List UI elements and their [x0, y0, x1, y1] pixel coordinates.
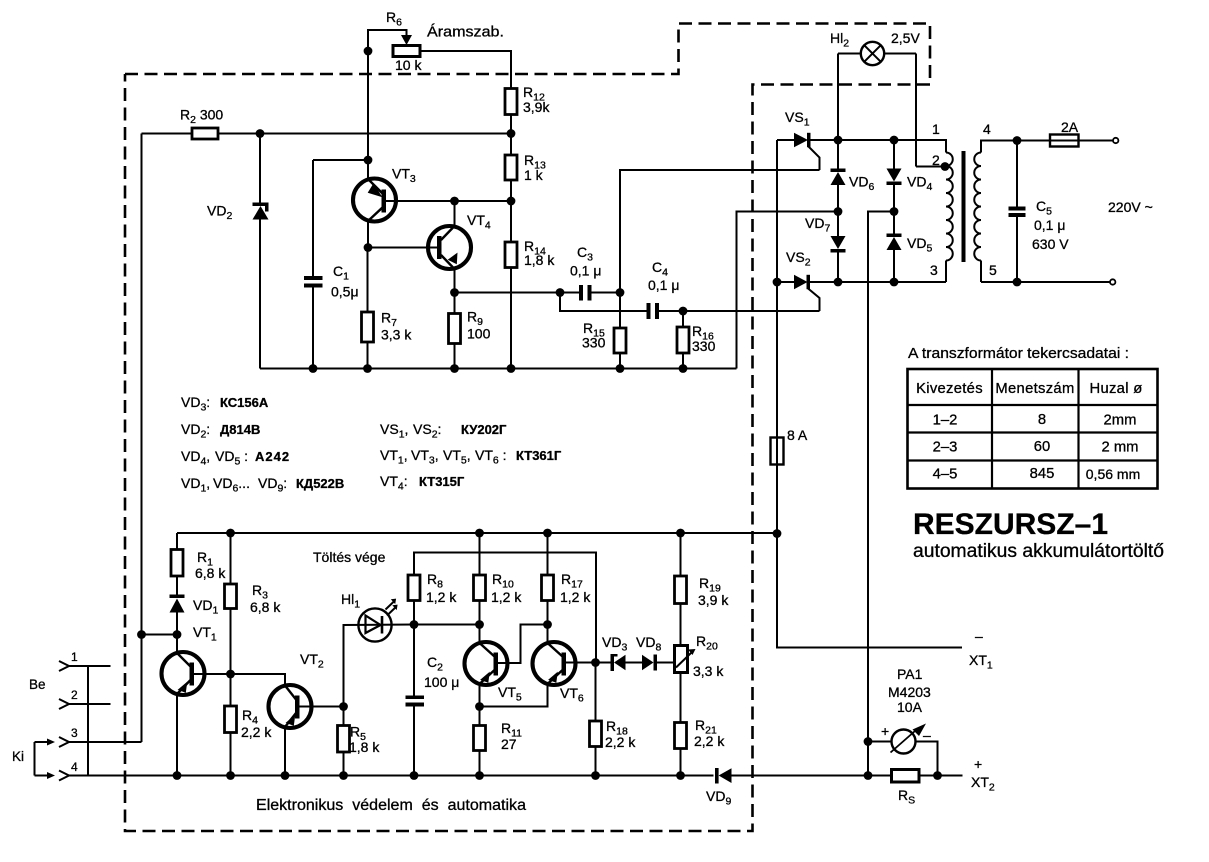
svg-text:+: +	[881, 723, 889, 739]
label Be	[29, 677, 46, 692]
label C3 0,1u	[570, 244, 601, 279]
svg-text:–: –	[975, 628, 983, 644]
node VT4 emitter	[450, 288, 459, 297]
label Ki	[12, 749, 24, 764]
svg-text:Töltés vége: Töltés vége	[313, 549, 386, 565]
label R5 1,8k	[349, 724, 380, 756]
node R18 rail	[591, 771, 600, 780]
node R3 top	[226, 529, 235, 538]
label VS1	[785, 109, 810, 129]
label terminal 4	[983, 121, 991, 137]
terminal link bar	[87, 666, 89, 776]
capacitor C5	[1009, 141, 1026, 283]
label R3 6,8k	[250, 582, 281, 615]
svg-text:0,1 μ: 0,1 μ	[570, 263, 601, 279]
node R10 top	[475, 529, 484, 538]
node R9-rail	[450, 364, 459, 373]
input terminal 2	[59, 688, 111, 709]
label R10 1,2k	[491, 571, 522, 605]
svg-text:27: 27	[501, 736, 517, 752]
svg-text:2A: 2A	[1061, 119, 1079, 135]
svg-text:10 k: 10 k	[395, 57, 422, 73]
transformer winding table	[908, 369, 1158, 489]
wire VT4 collector up	[454, 201, 456, 227]
svg-text:220V ~: 220V ~	[1108, 199, 1153, 215]
lamp HL2	[838, 42, 945, 167]
svg-text:А242: А242	[255, 449, 290, 464]
label R2 300	[180, 107, 223, 127]
label XT1 minus	[975, 628, 983, 644]
input terminal 1	[59, 650, 111, 671]
svg-text:630 V: 630 V	[1032, 236, 1069, 252]
node C3 left	[556, 288, 565, 297]
label R11 27	[501, 720, 522, 752]
svg-text:845: 845	[1030, 466, 1055, 482]
diode VD5	[887, 212, 902, 283]
transistor VT3	[353, 179, 455, 222]
thyristor VS2	[777, 275, 838, 311]
label VD4	[907, 174, 932, 194]
resistor R3	[225, 533, 237, 674]
svg-text:0,1 μ: 0,1 μ	[1034, 217, 1065, 233]
node C3-R15	[616, 288, 625, 297]
node PA1 plus	[864, 737, 873, 746]
label VD1	[193, 597, 218, 617]
wire R8 top link	[414, 553, 596, 663]
svg-text:1–2: 1–2	[933, 413, 958, 429]
wire VT4 emitter to C3	[455, 292, 580, 294]
label R8 1,2k	[426, 571, 457, 605]
svg-text:10A: 10A	[897, 699, 923, 715]
capacitor C1	[304, 160, 368, 369]
label XT1	[969, 652, 993, 672]
wire C3 node down to C4 line	[560, 293, 647, 312]
svg-text:4: 4	[71, 760, 78, 774]
svg-text:0,56 mm: 0,56 mm	[1086, 466, 1140, 482]
node R7-rail	[363, 364, 372, 373]
label R9 100	[467, 309, 491, 342]
node C1 top	[364, 156, 373, 165]
label Rs	[898, 787, 915, 807]
svg-text:100: 100	[467, 326, 491, 342]
wire VS1 line to transformer 1	[838, 140, 946, 153]
wire secondary bottom	[981, 279, 1115, 284]
label terminal 3	[930, 262, 938, 278]
label VD6	[849, 174, 874, 194]
svg-text:2: 2	[71, 688, 78, 702]
label terminal 2	[932, 152, 940, 168]
wire control bottom rail	[69, 775, 714, 777]
node VS1 cathode - VD6	[834, 136, 843, 145]
shunt resistor Rs	[868, 770, 963, 783]
label R6	[386, 9, 402, 29]
label XT2	[971, 774, 995, 794]
label parts VD1 VD6 VD9	[181, 475, 344, 495]
node R2-VD2	[256, 129, 265, 138]
label VD5	[907, 235, 932, 255]
node branch to VT1 collector	[137, 630, 177, 639]
svg-text:RESZURSZ–1: RESZURSZ–1	[913, 508, 1108, 541]
label 10k	[395, 57, 422, 73]
label 220V	[1108, 199, 1153, 215]
potentiometer R6	[368, 30, 420, 57]
resistor R11	[474, 707, 486, 776]
potentiometer R20	[675, 646, 696, 723]
transistor VT6	[480, 625, 596, 707]
node R17 VT6	[543, 620, 552, 629]
capacitor C2	[406, 625, 425, 776]
label PA1 minus sign	[923, 727, 931, 743]
svg-text:2mm: 2mm	[1104, 413, 1137, 429]
svg-text:6,8 k: 6,8 k	[250, 599, 281, 615]
label VD7	[805, 215, 830, 235]
svg-text:Be: Be	[29, 677, 46, 692]
subtitle automatikus akkumulatortolto	[913, 541, 1164, 562]
svg-text:КТ315Г: КТ315Г	[419, 474, 465, 489]
label parts VT1 VT3 VT5 VT6	[380, 447, 562, 467]
label parts VD3	[181, 394, 269, 414]
label C5 0,1u 630V	[1032, 198, 1069, 252]
label parts VD4 VD5	[181, 448, 290, 468]
node secondary top - C5	[1013, 136, 1022, 145]
svg-text:Huzal ø: Huzal ø	[1089, 381, 1142, 397]
wire R6 left node	[364, 47, 373, 160]
label R21 2,2k	[694, 717, 725, 749]
node C2 R8	[410, 620, 419, 629]
node R16-rail	[679, 364, 688, 373]
label parts VS1 VS2	[380, 421, 507, 441]
led HL1	[344, 599, 415, 707]
node shunt right	[933, 771, 942, 780]
node VS2 anode	[773, 278, 782, 287]
diode VD9	[715, 768, 868, 784]
label terminal 1	[932, 121, 940, 137]
svg-text:0,5μ: 0,5μ	[331, 284, 359, 300]
svg-text:3,9k: 3,9k	[523, 99, 550, 115]
svg-text:3: 3	[930, 262, 938, 278]
svg-text:1: 1	[932, 121, 940, 137]
wire to XT1	[777, 534, 962, 648]
svg-text:Д814В: Д814В	[220, 422, 260, 437]
svg-text:330: 330	[582, 335, 606, 351]
label VD2	[207, 203, 232, 223]
svg-text:330: 330	[692, 338, 716, 354]
dashed boundary of electronic protection block	[125, 24, 930, 832]
label parts VD2	[181, 421, 260, 441]
label R19 3,9k	[698, 575, 729, 608]
svg-text:–: –	[923, 727, 931, 743]
node C1-rail	[309, 364, 318, 373]
label R12 3,9k	[523, 84, 550, 115]
svg-text:2,5V: 2,5V	[891, 30, 920, 46]
label XT2 plus	[974, 756, 982, 772]
svg-text:КС156А: КС156А	[220, 395, 269, 410]
resistor R12	[505, 89, 517, 115]
input terminal 4	[59, 760, 78, 781]
node 8A fuse to control rail	[773, 529, 782, 538]
svg-text:3,9 k: 3,9 k	[698, 592, 729, 608]
node R4 rail	[226, 771, 235, 780]
svg-text:5: 5	[989, 262, 997, 278]
diode VD3	[596, 654, 626, 671]
node transformer tap 2	[941, 162, 950, 171]
svg-text:4–5: 4–5	[933, 467, 958, 483]
svg-text:+: +	[974, 756, 982, 772]
label R15 330	[582, 320, 606, 351]
svg-text:Áramszab.: Áramszab.	[427, 24, 504, 41]
label VT1	[193, 624, 217, 644]
node VT3 collector - VT4 base	[364, 243, 373, 252]
wire left vertical from R2 to input 3	[141, 134, 143, 743]
diode VD7	[831, 212, 846, 283]
label PA1 M4203 10A	[888, 666, 931, 715]
node VD5 bottom	[890, 278, 899, 287]
label VD8 at diode	[636, 634, 661, 654]
node R14-rail	[507, 364, 516, 373]
resistor R9	[449, 293, 461, 369]
svg-text:4: 4	[983, 121, 991, 137]
input terminal 3	[59, 726, 142, 747]
node R2-R12-R13	[507, 129, 516, 138]
label 8A	[787, 427, 808, 443]
resistor R10	[474, 533, 486, 625]
label VD9	[706, 788, 731, 808]
svg-text:Menetszám: Menetszám	[995, 381, 1074, 397]
jumper Ki	[35, 739, 56, 780]
svg-text:2,2 k: 2,2 k	[694, 733, 725, 749]
node R21 rail	[676, 771, 685, 780]
svg-text:3: 3	[71, 726, 78, 740]
label C2 100u	[424, 654, 459, 690]
label Elektronikus vedelem es automatika	[256, 797, 526, 814]
node VD4 top	[890, 136, 899, 145]
svg-text:1,8 k: 1,8 k	[349, 739, 380, 755]
wire R15 node to VS1 gate	[620, 170, 820, 293]
label R1 6,8k	[195, 549, 226, 581]
svg-text:automatikus akkumulátortöltő: automatikus akkumulátortöltő	[913, 541, 1164, 562]
svg-text:A transzformátor tekercsadatai: A transzformátor tekercsadatai :	[908, 345, 1129, 362]
svg-text:8: 8	[1038, 412, 1046, 428]
svg-text:КУ202Г: КУ202Г	[461, 422, 507, 437]
transistor VT1	[162, 635, 231, 776]
svg-text:2 mm: 2 mm	[1102, 440, 1139, 456]
fuse FU1 2A	[1050, 135, 1118, 147]
resistor R8	[408, 575, 420, 625]
resistor R7	[362, 248, 374, 369]
node VD7 bottom	[834, 278, 843, 287]
wire R6 to R12	[420, 51, 511, 89]
node R11 rail	[475, 771, 484, 780]
svg-text:1,2 k: 1,2 k	[560, 589, 591, 605]
wire base line to R13	[455, 200, 512, 202]
label VD3 at diode	[602, 634, 627, 654]
node shunt left	[864, 771, 873, 780]
wire VT4 emitter down	[454, 268, 456, 293]
label VT4	[467, 212, 491, 232]
node VT6 base VD3 R18	[591, 658, 600, 667]
svg-text:PA1: PA1	[897, 666, 923, 682]
node VT1 emitter rail	[173, 771, 182, 780]
transistor VT5	[465, 625, 548, 707]
svg-text:3,3 k: 3,3 k	[381, 327, 412, 343]
wire VT3 collector down	[367, 221, 369, 248]
wire C4 to VS2 gate	[683, 310, 820, 312]
resistor R1	[171, 533, 183, 595]
node VT2 base R5 HL1	[339, 702, 348, 711]
label C1 0,5u	[331, 263, 359, 300]
capacitor C3	[579, 285, 620, 301]
title RESZURSZ-1	[913, 508, 1108, 541]
capacitor C4	[647, 303, 684, 319]
resistor R19	[675, 533, 687, 646]
node VT5 emitter R11	[475, 702, 484, 711]
svg-text:0,1 μ: 0,1 μ	[648, 277, 679, 293]
thyristor VS1	[777, 133, 838, 170]
diode VD1	[170, 595, 185, 635]
node C5 bottom	[1013, 278, 1022, 287]
svg-text:КД522В: КД522В	[296, 476, 344, 491]
node VT1 base	[226, 670, 235, 679]
resistor R2	[142, 128, 512, 139]
label parts VT4	[380, 473, 465, 493]
label R4 2,2k	[241, 707, 272, 740]
resistor R5	[338, 707, 350, 776]
label HL2	[830, 30, 849, 50]
label 2,5V	[891, 30, 920, 46]
svg-text:2,2 k: 2,2 k	[241, 724, 272, 740]
svg-text:M4203: M4203	[888, 684, 931, 700]
wire VS2 cathode line to transformer 3	[810, 281, 946, 283]
transistor VT2	[231, 674, 344, 776]
svg-text:1,8 k: 1,8 k	[524, 252, 555, 268]
svg-text:Elektronikus védelem és aut: Elektronikus védelem és automatika	[256, 797, 526, 814]
zener diode VD2	[253, 134, 269, 369]
transformer primary winding 1-2-3	[946, 153, 953, 283]
svg-text:1,2 k: 1,2 k	[426, 589, 457, 605]
node R10 VT5	[475, 620, 484, 629]
node R19 top	[676, 529, 685, 538]
svg-text:1: 1	[71, 650, 78, 664]
svg-text:1 k: 1 k	[524, 167, 544, 183]
wire rail to VD6-VD7 junction	[737, 212, 839, 369]
resistor R4	[225, 674, 237, 776]
svg-text:2–3: 2–3	[933, 440, 958, 456]
svg-text:Ki: Ki	[12, 749, 24, 764]
node C4-R16	[679, 307, 688, 316]
svg-text:3,3 k: 3,3 k	[693, 663, 724, 679]
resistor R18	[590, 663, 602, 776]
svg-text:8 A: 8 A	[787, 427, 808, 443]
label VT3	[392, 166, 416, 186]
label Aramszab	[427, 24, 504, 41]
label VT6	[560, 685, 584, 705]
wire R6 node to VT3 emitter	[367, 160, 369, 179]
node VD4-VD5	[890, 207, 899, 216]
resistor R17	[542, 533, 554, 625]
label HL1	[341, 591, 360, 611]
label 2A	[1061, 119, 1079, 135]
svg-text:2: 2	[932, 152, 940, 168]
resistor R13	[505, 134, 517, 202]
wire bridge output down	[868, 212, 894, 776]
svg-text:КТ361Г: КТ361Г	[516, 448, 562, 463]
wire VT3 collector to VT4 base	[368, 247, 437, 249]
label VS2	[786, 249, 811, 269]
label R18 2,2k	[605, 718, 636, 750]
wire upper section bottom rail	[260, 368, 737, 370]
label R16 330	[692, 323, 716, 354]
transformer secondary winding 4-5	[974, 141, 1050, 283]
label R7 3,3k	[381, 310, 412, 343]
label PA1 plus sign	[881, 723, 889, 739]
label Toltes vege	[313, 549, 386, 565]
node VT1 collector	[173, 630, 182, 639]
svg-text:2,2 k: 2,2 k	[605, 734, 636, 750]
svg-text:6,8 k: 6,8 k	[195, 565, 226, 581]
node R15-rail	[616, 364, 625, 373]
label R13 1k	[524, 152, 546, 183]
label VT5	[498, 684, 522, 704]
node VT4 collector junction	[450, 197, 459, 206]
svg-text:100 μ: 100 μ	[424, 674, 459, 690]
diode VD4	[887, 140, 902, 212]
node R5 rail	[339, 771, 348, 780]
label R20 3,3k	[693, 633, 724, 679]
node VD6-VD7	[834, 207, 843, 216]
fuse FU2 8A	[771, 282, 784, 534]
resistor R16	[677, 311, 689, 369]
diode VD8	[626, 655, 675, 671]
svg-text:1,2 k: 1,2 k	[491, 589, 522, 605]
node VT2 emitter rail	[281, 771, 290, 780]
resistor R21	[675, 723, 687, 776]
svg-text:60: 60	[1034, 439, 1050, 455]
label table title	[908, 345, 1129, 362]
resistor R14	[505, 201, 517, 369]
node R13-R14-base	[507, 197, 516, 206]
label VT2	[300, 651, 324, 671]
label terminal 5	[989, 262, 997, 278]
diode VD6	[831, 140, 846, 212]
transistor VT4	[428, 226, 471, 269]
wire control top rail	[177, 532, 777, 534]
label C4 0,1u	[648, 259, 679, 293]
wire R12 to R2 line	[510, 115, 512, 134]
svg-text:Kivezetés: Kivezetés	[916, 381, 983, 397]
node R17 top	[543, 529, 552, 538]
ammeter PA1	[868, 724, 938, 776]
resistor R15	[614, 293, 626, 369]
wire VS anode vertical	[776, 140, 778, 282]
node C2 rail	[410, 771, 419, 780]
transformer core	[962, 151, 966, 262]
wire HL1 to R10 node	[414, 624, 480, 626]
label R17 1,2k	[560, 571, 591, 605]
label R14 1,8k	[524, 238, 555, 268]
